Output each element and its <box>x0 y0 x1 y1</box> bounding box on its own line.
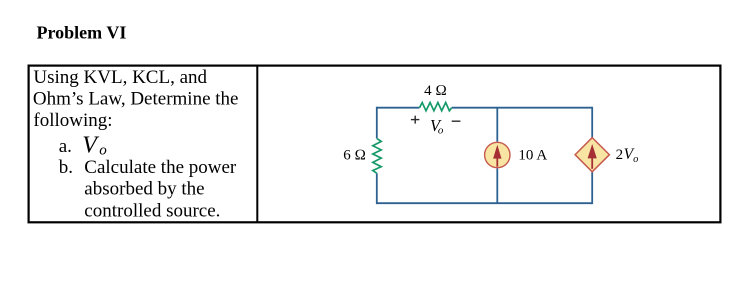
svg-text:Problem VI: Problem VI <box>37 22 127 42</box>
svg-text:V: V <box>82 132 99 158</box>
arrow of current source I1 <box>493 145 501 167</box>
svg-text:4 Ω: 4 Ω <box>424 83 447 99</box>
label plus sign of Vo <box>411 116 420 124</box>
svg-text:following:: following: <box>33 110 112 131</box>
svg-text:2Vo: 2Vo <box>616 146 639 165</box>
wire: bottom <box>377 202 592 204</box>
wire: top-right segment <box>452 107 593 109</box>
wire: right branch upper <box>591 107 593 138</box>
resistor R2 6Ω vertical zigzag <box>373 138 381 173</box>
arrow of dependent source D1 <box>588 144 597 169</box>
wire: middle branch lower <box>496 168 498 203</box>
svg-text:Ohm’s Law, Determine the: Ohm’s Law, Determine the <box>33 89 239 110</box>
table column divider <box>256 66 258 223</box>
svg-text:o: o <box>438 125 444 137</box>
wire: top-left segment <box>377 107 420 109</box>
wire: left branch lower <box>376 173 378 204</box>
svg-text:a.: a. <box>59 136 72 157</box>
svg-text:6 Ω: 6 Ω <box>343 147 366 163</box>
resistor R1 4Ω horizontal zigzag <box>420 103 452 111</box>
svg-text:Using KVL, KCL, and: Using KVL, KCL, and <box>33 67 207 88</box>
label minus sign of Vo <box>452 120 461 122</box>
svg-text:b.: b. <box>59 157 73 178</box>
svg-text:absorbed by the: absorbed by the <box>84 179 204 200</box>
svg-text:o: o <box>99 143 107 159</box>
wire: middle branch upper <box>496 108 498 142</box>
svg-text:Calculate the power: Calculate the power <box>84 157 237 178</box>
svg-text:10 A: 10 A <box>518 148 547 164</box>
wire: right branch lower <box>591 172 593 204</box>
wire: left branch upper <box>376 107 378 139</box>
dependent source D1 2Vo diamond <box>575 138 609 172</box>
svg-text:controlled source.: controlled source. <box>84 200 220 221</box>
current source I1 10A circle <box>485 142 510 167</box>
table outer frame <box>29 66 721 223</box>
